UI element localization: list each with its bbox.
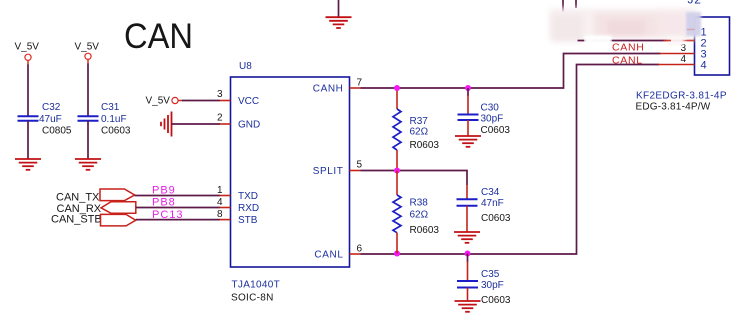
svg-text:CAN: CAN — [124, 17, 193, 56]
svg-text:V_5V: V_5V — [75, 42, 100, 53]
svg-text:GND: GND — [238, 120, 260, 131]
ground (top middle) — [326, 17, 352, 28]
svg-text:SOIC-8N: SOIC-8N — [231, 293, 274, 304]
svg-text:C0603: C0603 — [481, 295, 511, 306]
svg-text:2: 2 — [217, 113, 223, 124]
svg-text:PC13: PC13 — [152, 209, 184, 221]
J2 pin 2 — [663, 40, 695, 42]
pin 5 SPLIT — [350, 170, 361, 172]
svg-text:0.1uF: 0.1uF — [101, 114, 127, 125]
wire J2 pin1 — [640, 29, 684, 31]
wire RXD — [136, 207, 220, 209]
blur white notch over wire — [585, 36, 612, 46]
svg-text:SPLIT: SPLIT — [313, 166, 344, 177]
junction dot (R37/R38) — [394, 168, 400, 174]
pin 2 GND — [220, 123, 231, 125]
connector J2 body — [695, 17, 730, 75]
wire V_5V to C31 — [87, 64, 89, 117]
svg-text:TXD: TXD — [238, 191, 258, 202]
pin 6 CANL — [350, 253, 361, 255]
junction dot (R38 bottom) — [394, 251, 400, 257]
svg-text:CAN_TX: CAN_TX — [56, 192, 100, 204]
resistor R38 — [396, 171, 398, 196]
svg-text:C31: C31 — [101, 102, 120, 113]
svg-text:7: 7 — [357, 78, 363, 89]
svg-text:62Ω: 62Ω — [410, 210, 429, 221]
wire SPLIT net — [361, 171, 468, 186]
ground (below C30) — [455, 136, 481, 147]
svg-text:C35: C35 — [481, 269, 500, 280]
svg-text:C0603: C0603 — [481, 213, 511, 224]
ground (rotated, at GND pin) — [161, 112, 172, 137]
svg-text:U8: U8 — [239, 61, 252, 72]
svg-text:4: 4 — [680, 54, 686, 65]
wire VCC — [182, 100, 220, 102]
wire TXD — [135, 195, 220, 197]
resistor R37 — [396, 88, 398, 109]
junction dot (R37 top) — [394, 85, 400, 91]
svg-text:R0603: R0603 — [410, 140, 440, 151]
svg-text:R37: R37 — [410, 116, 429, 127]
J2 pin2 stub visible through blur — [687, 40, 695, 42]
ground (below C34) — [454, 232, 480, 243]
svg-text:62Ω: 62Ω — [410, 127, 429, 138]
wire CANH net — [361, 54, 661, 89]
J2 pin 3 — [660, 53, 695, 55]
wire CANL stub to top edge — [575, 0, 577, 8]
junction dot (C35 tap) — [465, 251, 471, 257]
J2 pin 1 — [660, 29, 695, 31]
svg-text:CANH: CANH — [612, 42, 645, 54]
svg-text:PB8: PB8 — [152, 197, 176, 209]
svg-text:EDG-3.81-4P/W: EDG-3.81-4P/W — [636, 102, 711, 113]
svg-text:PB9: PB9 — [152, 185, 176, 197]
pin 4 RXD — [220, 207, 231, 209]
svg-text:C32: C32 — [42, 102, 61, 113]
ground (below C35) — [455, 301, 481, 312]
svg-text:CANH: CANH — [313, 84, 344, 95]
wire J2 pin2 — [578, 40, 684, 42]
svg-text:4: 4 — [217, 197, 223, 208]
capacitor C34 — [466, 185, 468, 199]
pin 7 CANH — [350, 87, 361, 89]
J2 pin 4 — [658, 64, 695, 66]
svg-text:6: 6 — [357, 244, 363, 255]
svg-text:8: 8 — [217, 209, 223, 220]
svg-text:V_5V: V_5V — [15, 42, 40, 53]
wire C31 to ground — [87, 121, 89, 159]
wire top to ground symbol — [338, 0, 340, 17]
wire J2 pin2 visible fragment — [612, 40, 664, 42]
svg-text:30pF: 30pF — [481, 280, 504, 291]
wire C32 to ground — [27, 121, 29, 159]
wire GND — [172, 123, 221, 125]
junction dot (C30 tap) — [465, 85, 471, 91]
svg-text:C0805: C0805 — [42, 126, 72, 137]
svg-text:VCC: VCC — [238, 96, 259, 107]
svg-text:R38: R38 — [410, 198, 429, 209]
svg-text:CAN_STB: CAN_STB — [51, 214, 102, 226]
svg-text:47nF: 47nF — [481, 198, 504, 209]
ground (below C31) — [75, 159, 101, 170]
capacitor C32 — [18, 115, 39, 117]
svg-text:3: 3 — [217, 89, 223, 100]
svg-text:C34: C34 — [481, 187, 500, 198]
svg-text:CANL: CANL — [314, 250, 343, 261]
J2 pin1 stub faint through blur — [687, 29, 695, 31]
svg-text:30pF: 30pF — [481, 114, 504, 125]
svg-text:4: 4 — [701, 60, 707, 72]
svg-text:CANL: CANL — [612, 55, 643, 67]
svg-text:J2: J2 — [688, 0, 702, 7]
svg-text:TJA1040T: TJA1040T — [232, 280, 281, 291]
wire CANL net — [361, 65, 660, 255]
ground (below C32) — [15, 159, 41, 170]
IC U8 TJA1040T body — [231, 77, 350, 267]
pin 8 STB — [220, 219, 231, 221]
wire J2 pin2 left dash — [578, 40, 585, 42]
svg-text:C0603: C0603 — [101, 126, 131, 137]
pin 3 VCC — [220, 100, 231, 102]
capacitor C31 — [78, 115, 99, 117]
wire V_5V to C32 — [27, 65, 29, 117]
svg-text:V_5V: V_5V — [146, 96, 171, 107]
svg-text:STB: STB — [238, 215, 258, 226]
svg-text:47uF: 47uF — [39, 114, 62, 125]
svg-text:RXD: RXD — [238, 203, 259, 214]
svg-text:C30: C30 — [481, 103, 500, 114]
wire CANH stub to top edge — [562, 0, 564, 12]
svg-text:C0603: C0603 — [481, 125, 511, 136]
blur watermark overlay — [549, 8, 697, 42]
svg-text:KF2EDGR-3.81-4P: KF2EDGR-3.81-4P — [636, 91, 727, 102]
pin 1 TXD — [220, 195, 231, 197]
capacitor C35 — [467, 254, 469, 263]
capacitor C30 — [467, 88, 469, 96]
svg-text:1: 1 — [217, 185, 223, 196]
wire STB — [136, 219, 220, 221]
svg-text:R0603: R0603 — [410, 225, 440, 236]
blur lavender smudge — [686, 12, 701, 36]
svg-text:5: 5 — [357, 160, 363, 171]
